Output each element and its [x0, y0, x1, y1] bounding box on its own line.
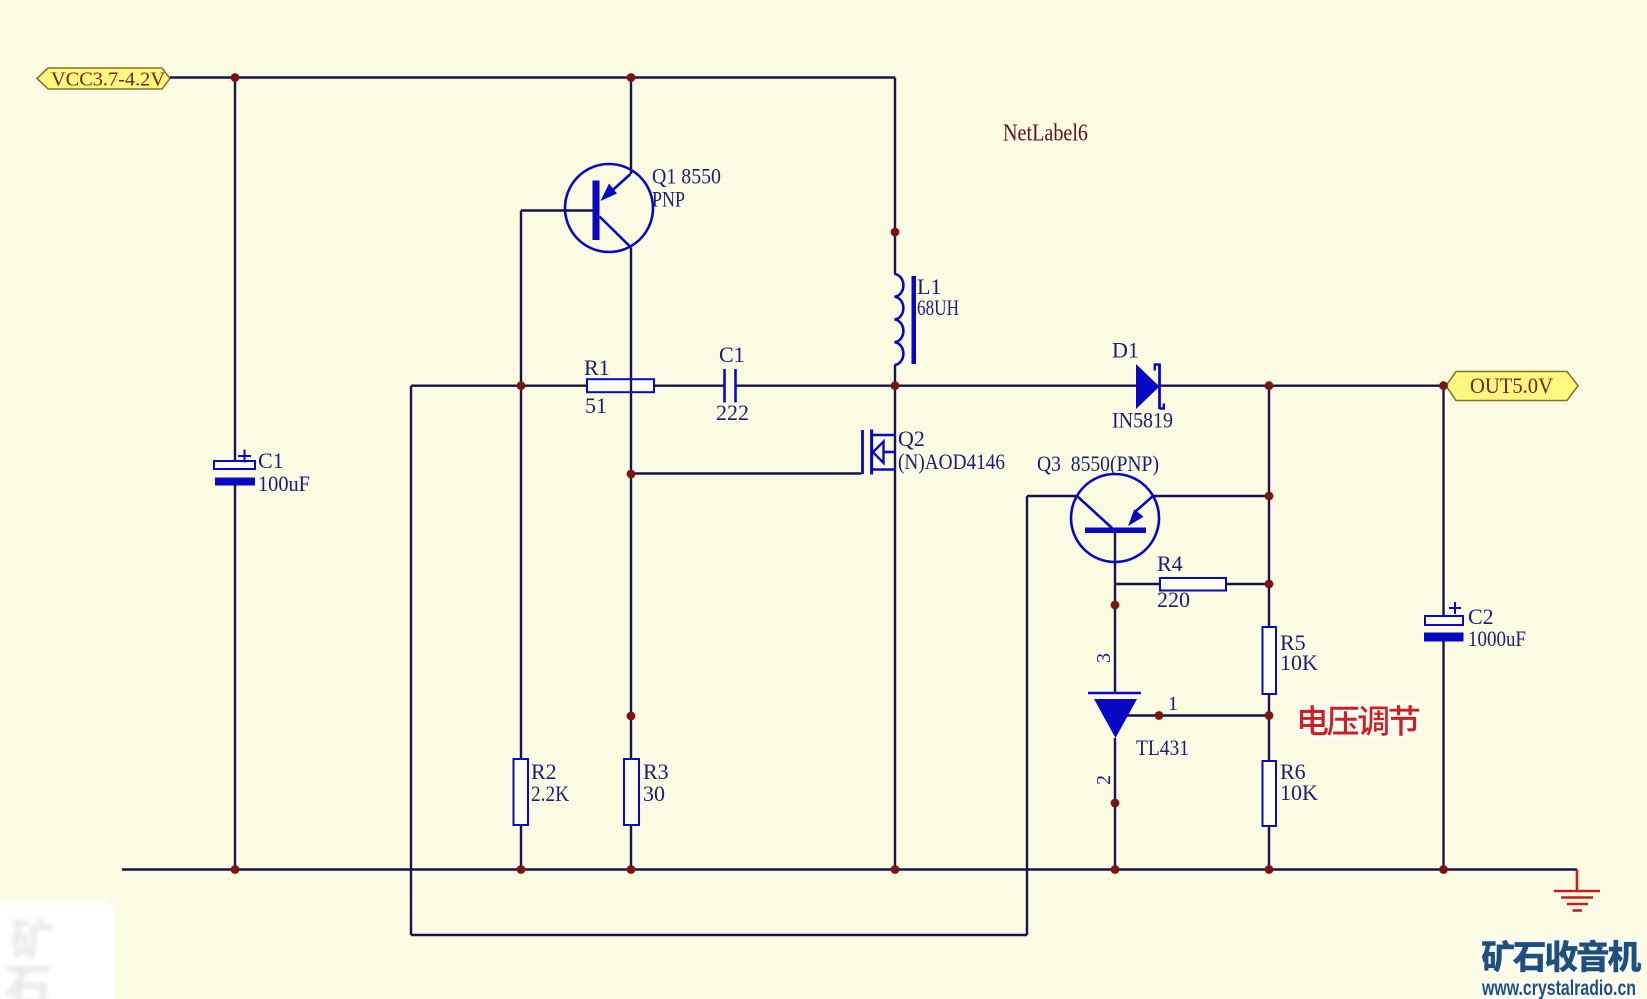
- wire Q1 base: [521, 209, 593, 211]
- sheet edge (white corner): [0, 905, 115, 999]
- wire feedback node to R1: [411, 385, 587, 387]
- wire R6 to ground rail: [1268, 826, 1270, 870]
- wire VCC to Q1 emitter: [630, 78, 632, 175]
- svg-text:NetLabel6: NetLabel6: [1003, 121, 1088, 147]
- resistor R3 30: [624, 759, 669, 825]
- svg-text:C1: C1: [719, 342, 745, 367]
- wire L1 through Q2 to ground: [894, 365, 896, 870]
- watermark crystalradio logo: [1481, 940, 1641, 999]
- diode D1 IN5819 schottky: [1112, 338, 1173, 433]
- capacitor C1 222 coupling: [716, 342, 749, 425]
- wire C2 to ground rail: [1442, 642, 1444, 870]
- wire Q3 base to TL431 pin 3: [1114, 533, 1116, 693]
- power flag OUT5.0V: [1446, 372, 1578, 401]
- svg-text:2.2K: 2.2K: [531, 781, 569, 806]
- wire VCC to C1 plus: [234, 78, 236, 462]
- wire ground rail: [122, 868, 1577, 870]
- svg-text:2: 2: [1093, 775, 1115, 785]
- capacitor C1 100uF electrolytic: [214, 448, 310, 496]
- resistor R6 10K: [1263, 759, 1319, 826]
- wire feedback up to Q3: [1026, 496, 1028, 935]
- shunt regulator TL431: [1088, 693, 1189, 760]
- svg-text:PNP: PNP: [652, 187, 685, 212]
- wire VCC top rail: [170, 76, 895, 78]
- wire feedback left vertical: [410, 386, 412, 935]
- wire Q3 emitter to R5 node: [1153, 495, 1269, 497]
- svg-text:www.crystalradio.cn: www.crystalradio.cn: [1481, 977, 1636, 999]
- wire R1 to C1 coupling cap: [654, 385, 724, 387]
- svg-text:OUT5.0V: OUT5.0V: [1470, 373, 1553, 398]
- wire D1 cathode to OUT flag: [1160, 385, 1446, 387]
- transistor Q3 8550 PNP: [1037, 451, 1159, 562]
- resistor R1: [584, 355, 654, 418]
- wire R3 to ground rail: [630, 825, 632, 870]
- svg-text:51: 51: [585, 393, 607, 418]
- resistor R5 10K: [1263, 627, 1319, 694]
- wire to Q3 collector: [1027, 495, 1077, 497]
- svg-text:1000uF: 1000uF: [1468, 626, 1526, 651]
- wire R4 right to node: [1226, 583, 1269, 585]
- wire C1 minus to ground rail: [234, 486, 236, 870]
- svg-text:R1: R1: [584, 355, 610, 380]
- capacitor C2 1000uF electrolytic: [1424, 602, 1526, 651]
- svg-text:TL431: TL431: [1136, 735, 1189, 760]
- wire feedback bottom run: [411, 934, 1027, 936]
- svg-text:30: 30: [643, 781, 665, 806]
- annotation 电压调节 (red): [1300, 705, 1419, 736]
- wire node B vertical (base/R2): [520, 211, 522, 760]
- wire R5 to R6: [1268, 694, 1270, 761]
- svg-text:10K: 10K: [1280, 650, 1318, 675]
- wire TL431 ref pin 1: [1127, 714, 1269, 716]
- ground symbol: [1554, 870, 1600, 911]
- svg-text:10K: 10K: [1280, 780, 1318, 805]
- wire Q1 collector down through R1 to R3: [630, 248, 632, 760]
- svg-text:222: 222: [716, 400, 749, 425]
- svg-text:3: 3: [1093, 653, 1115, 663]
- inductor L1 68UH: [895, 274, 960, 365]
- power flag VCC3.7-4.2V: [37, 68, 170, 91]
- svg-text:(N)AOD4146: (N)AOD4146: [898, 449, 1005, 474]
- svg-text:100uF: 100uF: [258, 471, 310, 496]
- transistor Q2 (N)AOD4146 MOSFET: [863, 426, 1006, 475]
- svg-text:VCC3.7-4.2V: VCC3.7-4.2V: [51, 69, 166, 91]
- wire R2 to ground rail: [520, 825, 522, 870]
- wire TL431 pin 2 to ground: [1114, 738, 1116, 870]
- svg-text:1: 1: [1168, 693, 1178, 715]
- transistor Q1 8550 PNP: [565, 164, 721, 253]
- wire cap to D1 anode: [736, 385, 1136, 387]
- wire to R4 left: [1115, 583, 1160, 585]
- wire OUT node down to R5: [1268, 386, 1270, 627]
- svg-text:Q3 8550(PNP): Q3 8550(PNP): [1037, 451, 1159, 476]
- svg-text:220: 220: [1157, 587, 1190, 612]
- wire OUT node down to C2: [1442, 386, 1444, 616]
- resistor R2 2.2K: [514, 759, 570, 825]
- resistor R4 220: [1157, 551, 1226, 612]
- svg-text:R4: R4: [1157, 551, 1183, 576]
- svg-text:Q1 8550: Q1 8550: [652, 164, 721, 189]
- wire VCC rail down to L1: [894, 78, 896, 275]
- svg-text:68UH: 68UH: [917, 295, 959, 320]
- svg-text:C1: C1: [258, 448, 284, 473]
- svg-text:D1: D1: [1112, 338, 1139, 363]
- svg-text:Q2: Q2: [898, 426, 925, 451]
- svg-text:IN5819: IN5819: [1112, 408, 1173, 433]
- wire Q2 gate: [631, 472, 861, 474]
